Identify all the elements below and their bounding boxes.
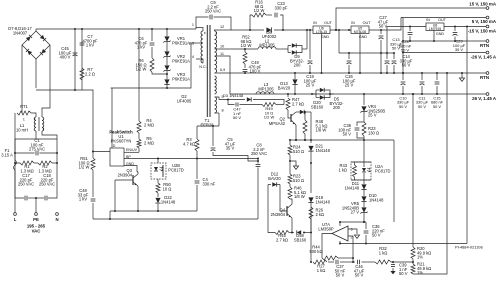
- svg-text:330 pF: 330 pF: [275, 5, 288, 10]
- capacitor C10 330 uF 50 V: [402, 73, 404, 80]
- svg-text:2 MΩ: 2 MΩ: [144, 140, 154, 145]
- svg-text:BAV20: BAV20: [268, 176, 281, 181]
- wire drain to U1: [111, 88, 113, 148]
- capacitor C17 220 pF 250 VAC: [15, 163, 24, 198]
- resistor R4 2 Mohm: [138, 29, 140, 121]
- resistor R50 10 ohm: [157, 179, 159, 183]
- wire divider bottom to RTN: [413, 73, 447, 274]
- capacitor C4 330 nF: [196, 159, 198, 180]
- svg-text:P6KE91A: P6KE91A: [172, 76, 190, 81]
- ground symbol RTN: [461, 73, 463, 78]
- svg-text:250 VAC: 250 VAC: [251, 151, 267, 156]
- resistor R27 1 kohm: [313, 260, 327, 264]
- capacitor C7 4700 pF 1 kV: [81, 29, 83, 90]
- resistor R21 49.9 kohm 1%: [411, 264, 415, 274]
- svg-text:1/8 W: 1/8 W: [316, 128, 327, 133]
- svg-text:25 V: 25 V: [306, 83, 315, 88]
- wire Q3 base: [115, 179, 133, 181]
- svg-text:1 kV: 1 kV: [137, 45, 145, 50]
- inductor L3 MP1305: [256, 92, 274, 94]
- transformer middle secondary winding: [215, 76, 217, 94]
- common-mode choke L1 10 mH: [34, 117, 36, 131]
- wire pin1 to B+ rail: [195, 28, 197, 30]
- wire 26V sense divider: [412, 94, 414, 247]
- svg-text:IN: IN: [426, 18, 430, 22]
- svg-text:3.15 A: 3.15 A: [1, 152, 13, 157]
- svg-text:50 V: 50 V: [433, 104, 441, 109]
- resistors R1 R2 1.3 Mohm: [15, 153, 20, 163]
- capacitor C47 1 nF 50 V: [228, 100, 235, 105]
- wire U6 GND leg: [321, 34, 323, 74]
- svg-text:IN: IN: [351, 21, 355, 25]
- svg-text:35 V: 35 V: [226, 146, 235, 151]
- capacitor C14 330 uF 50 V: [393, 53, 395, 59]
- svg-text:10 mH: 10 mH: [16, 127, 28, 132]
- svg-text:1 kV: 1 kV: [79, 197, 87, 202]
- transistor Q4 2N3904: [286, 206, 288, 216]
- svg-text:50 V: 50 V: [379, 24, 388, 29]
- capacitor C11 330 uF 50 V: [421, 73, 423, 80]
- resistor R47 2.7 kohm: [287, 94, 289, 97]
- diode D22 1N4148: [157, 193, 159, 197]
- resistor R51 100 ohm 1/2 W: [92, 152, 94, 159]
- svg-text:250 VAC: 250 VAC: [18, 182, 34, 187]
- regulator U6 L78L15: [313, 26, 330, 34]
- wire B+ rail: [36, 28, 196, 30]
- wire bridge right leg: [42, 45, 50, 117]
- svg-text:200: 200: [333, 105, 341, 110]
- op-amp U7A LM358P: [332, 226, 348, 241]
- capacitor C27 47 uF 50 V: [380, 30, 382, 34]
- wire D9 to regulators: [306, 30, 308, 49]
- svg-text:10: 10: [220, 45, 224, 49]
- svg-text:N.C.: N.C.: [199, 65, 207, 69]
- svg-text:UF4005: UF4005: [177, 98, 192, 103]
- capacitor C13 330 uF 50 V: [386, 53, 388, 59]
- svg-text:2,3: 2,3: [189, 42, 194, 46]
- wire op-amp V+ to drive row: [339, 222, 341, 226]
- svg-text:RTN: RTN: [480, 75, 489, 80]
- svg-text:RT1: RT1: [20, 104, 28, 109]
- resistor R7 2.2 ohm: [80, 68, 84, 80]
- svg-text:2 kΩ: 2 kΩ: [316, 212, 325, 217]
- svg-text:50 V: 50 V: [355, 273, 364, 278]
- svg-text:50 V: 50 V: [372, 233, 381, 238]
- resistor R46 5.1 kohm 1/8 W: [288, 187, 292, 199]
- capacitor C5 47 uF 35 V: [197, 125, 219, 127]
- svg-text:11: 11: [220, 52, 224, 56]
- svg-text:12: 12: [220, 25, 224, 29]
- svg-text:50 V: 50 V: [402, 63, 411, 68]
- regulator U8 LM7915: [426, 23, 444, 31]
- wire 26V rail: [230, 93, 487, 95]
- svg-text:330 nF: 330 nF: [203, 181, 216, 186]
- regulator U5 MC78L08: [351, 26, 369, 34]
- transformer lower secondary winding: [215, 97, 217, 113]
- diode D19 1N4148: [308, 197, 313, 202]
- wire RT1 to L1: [31, 113, 36, 117]
- resistor R48 5.1 kohm 1/8 W: [304, 112, 306, 120]
- svg-text:4.7 kΩ: 4.7 kΩ: [183, 141, 195, 146]
- fuse F1 3.15 A: [14, 155, 16, 160]
- wire GND pin to Q3: [124, 166, 137, 173]
- svg-text:50 V: 50 V: [233, 115, 242, 120]
- svg-text:BAV20: BAV20: [278, 85, 291, 90]
- svg-text:25 V: 25 V: [368, 113, 377, 118]
- svg-text:26 V, 1.45 A: 26 V, 1.45 A: [472, 96, 497, 101]
- svg-text:L: L: [14, 217, 17, 222]
- svg-text:2.7 kΩ: 2.7 kΩ: [276, 237, 288, 242]
- wire U5 GND leg: [359, 34, 361, 74]
- svg-text:2.7 kΩ: 2.7 kΩ: [292, 101, 304, 106]
- wire 5V to filter caps: [402, 18, 404, 74]
- svg-text:EER28: EER28: [201, 122, 215, 127]
- resistor R52 68 kohm 1/2 W and C49 470 pF 100 V: [244, 49, 246, 52]
- wire RTN rail upper: [403, 40, 487, 42]
- capacitor C18 220 pF 250 VAC: [36, 197, 44, 199]
- capacitor C34 100 nF 50 V: [357, 122, 364, 126]
- capacitor C46 47 uF 50 V: [340, 261, 355, 263]
- wire L1 bottoms to filter rail: [35, 131, 37, 139]
- Y-capacitor C8 2.2 nF 250 VAC: [257, 159, 259, 164]
- svg-text:1N4148: 1N4148: [161, 199, 176, 204]
- svg-text:6,9: 6,9: [220, 68, 225, 72]
- optocoupler U2A PC817D with R43 1 kohm: [351, 162, 371, 180]
- wire drain rail to transformer: [111, 43, 196, 88]
- wire L input to fuse: [14, 113, 16, 155]
- svg-text:1/2 W: 1/2 W: [136, 67, 147, 72]
- svg-text:VAC: VAC: [32, 228, 41, 233]
- AC input terminals L PE N 195-265 VAC: [35, 198, 37, 213]
- svg-text:2 MΩ: 2 MΩ: [144, 122, 154, 127]
- svg-text:GND: GND: [321, 35, 330, 39]
- svg-text:3: 3: [351, 228, 353, 232]
- svg-text:510 Ω: 510 Ω: [293, 149, 304, 154]
- svg-text:8: 8: [222, 109, 224, 113]
- wire BP rail: [124, 158, 258, 160]
- svg-text:D: D: [113, 144, 116, 148]
- svg-text:400 V: 400 V: [60, 55, 71, 60]
- wire -15V sense rail: [340, 243, 467, 245]
- svg-text:1%: 1%: [417, 255, 423, 260]
- wire U1 source to B- and R51: [93, 151, 110, 153]
- zener VR3 P6KE91A: [166, 57, 168, 65]
- svg-text:MP1305: MP1305: [259, 43, 275, 48]
- svg-text:PC817D: PC817D: [168, 167, 184, 172]
- wire -26V rail: [403, 52, 487, 54]
- diode D20 SB160: [296, 111, 300, 113]
- diode D12 BAV20: [268, 184, 271, 186]
- svg-text:15 V, 150 mA: 15 V, 150 mA: [469, 2, 497, 7]
- resistor R20 49.9 kohm 1%: [411, 247, 415, 259]
- transformer secondary winding: [215, 31, 217, 73]
- svg-text:5 V, 150 mA: 5 V, 150 mA: [472, 19, 497, 24]
- svg-text:1N4148: 1N4148: [316, 199, 331, 204]
- svg-text:200: 200: [294, 63, 302, 68]
- resistor R49 10 ohm 1/2 W: [240, 104, 263, 106]
- svg-text:1/2 W: 1/2 W: [241, 43, 252, 48]
- resistor R23b 510 ohm: [289, 161, 291, 174]
- zener VR5 1N5240B 27V: [363, 202, 365, 207]
- transistor Q2 MPSA42: [288, 110, 291, 118]
- svg-text:50 V: 50 V: [343, 132, 352, 137]
- svg-text:1/2 W: 1/2 W: [254, 8, 265, 13]
- svg-text:LM7915: LM7915: [429, 27, 441, 31]
- svg-text:25 V: 25 V: [345, 83, 354, 88]
- svg-text:2.2 Ω: 2.2 Ω: [85, 71, 95, 76]
- diode D21 1N4148: [308, 146, 313, 151]
- svg-text:SB160: SB160: [294, 237, 307, 242]
- svg-text:N: N: [55, 217, 58, 222]
- wire bridge bottom to B- rail: [35, 59, 37, 88]
- input filter top rail: [15, 138, 57, 140]
- svg-text:35 V: 35 V: [455, 47, 464, 52]
- capacitor C6 470 pF 1 kV: [151, 29, 153, 41]
- wire 5V output rail: [401, 17, 487, 19]
- svg-text:PKS607YN: PKS607YN: [111, 138, 132, 143]
- resistor R24 510 ohm: [289, 140, 291, 145]
- svg-text:1: 1: [192, 23, 194, 27]
- zener VR2 P6KE91A: [166, 42, 168, 51]
- svg-text:RTN: RTN: [480, 43, 489, 48]
- svg-text:50 V: 50 V: [399, 271, 408, 276]
- wire U2B top to BP rail: [157, 159, 159, 164]
- svg-text:500 kΩ: 500 kΩ: [309, 249, 322, 254]
- svg-text:1/2 W: 1/2 W: [79, 165, 90, 170]
- thermistor RT1: [17, 111, 31, 115]
- diode D58 SB160: [289, 232, 294, 234]
- svg-text:2N3904: 2N3904: [118, 172, 133, 177]
- svg-text:2N3904: 2N3904: [271, 212, 286, 217]
- capacitor C39 1 nF 50 V with ground: [392, 261, 394, 263]
- svg-text:P6KE91A: P6KE91A: [172, 58, 190, 63]
- svg-text:P6KE91A: P6KE91A: [172, 40, 190, 45]
- capacitor C26 100 uF 25 V: [348, 53, 350, 59]
- wire bias return: [218, 113, 220, 126]
- svg-text:1N4148: 1N4148: [316, 148, 331, 153]
- svg-text:1 kV: 1 kV: [86, 43, 94, 48]
- inductor L2 MP1305: [219, 48, 258, 50]
- diode D11 1N4148: [363, 180, 365, 184]
- optocoupler U2B PC817D: [151, 163, 166, 179]
- svg-text:D3 1N4148: D3 1N4148: [223, 93, 244, 98]
- PeakSwitch U1 PKS607YN: [110, 148, 124, 166]
- wire op-amp drive row: [340, 221, 366, 223]
- wire sense rail: [290, 139, 394, 141]
- resistor R23 130 ohm: [362, 122, 366, 136]
- capacitor C29 100 uF 35 V: [454, 27, 456, 32]
- ground tap: [290, 155, 296, 166]
- svg-text:10 Ω: 10 Ω: [163, 186, 172, 191]
- wire primary ground rail: [93, 218, 258, 220]
- svg-text:1/2 W: 1/2 W: [264, 115, 275, 120]
- wire B- rail: [36, 90, 93, 152]
- svg-text:50 V: 50 V: [392, 46, 400, 51]
- svg-text:275 VAC: 275 VAC: [29, 147, 45, 152]
- svg-text:PC817D: PC817D: [375, 168, 391, 173]
- wire op-amp V- to lower rail: [339, 241, 341, 244]
- resistor R5 2 Mohm: [138, 133, 140, 139]
- svg-text:EN/UV: EN/UV: [126, 148, 138, 152]
- zener VR4 1N5250B 25V: [363, 94, 365, 105]
- svg-text:27 V: 27 V: [351, 210, 360, 215]
- capacitor C35 220 nF 50 V: [365, 222, 367, 229]
- capacitor C48 33 pF 1 kV: [92, 170, 94, 197]
- svg-text:1 kΩ: 1 kΩ: [338, 167, 347, 172]
- wire EN/UV pin to R5: [124, 151, 139, 153]
- wire -15V input rail: [386, 27, 388, 54]
- svg-text:MPSA42: MPSA42: [269, 121, 286, 126]
- resistor R3 4.7 kohm: [196, 126, 198, 139]
- svg-text:1N4148: 1N4148: [369, 197, 384, 202]
- diode D13 BAV20: [294, 73, 296, 79]
- Y-capacitor C9 2.2 nF 250 VAC: [196, 17, 209, 28]
- wire sub-circuit bottom rail: [110, 210, 197, 212]
- wire op-amp feedback R44 500 kohm: [322, 234, 332, 259]
- diode D3 1N4148: [219, 99, 245, 101]
- svg-text:1 kΩ: 1 kΩ: [317, 268, 326, 273]
- svg-text:4: 4: [192, 55, 194, 59]
- svg-text:PI-4884-021108: PI-4884-021108: [455, 245, 483, 250]
- wire Q2 emitter down: [295, 125, 297, 140]
- diode D6 UF4002: [266, 27, 271, 32]
- wire RTN secondary rail: [219, 72, 487, 74]
- capacitor C1 100 nF 275 VAC: [15, 139, 35, 153]
- capacitor C15 680 nF 50 V: [436, 73, 438, 80]
- svg-text:50 V: 50 V: [401, 48, 410, 53]
- wire bridge left leg: [21, 45, 23, 113]
- capacitor C28 680 nF 50 V: [409, 27, 411, 32]
- dual diode D5 BYV32-200: [312, 93, 316, 95]
- wire right side drop: [393, 140, 395, 222]
- svg-text:130 Ω: 130 Ω: [368, 130, 379, 135]
- svg-text:510 Ω: 510 Ω: [293, 178, 304, 183]
- svg-text:1/8 W: 1/8 W: [294, 194, 305, 199]
- svg-text:1N4007: 1N4007: [13, 30, 28, 35]
- snubber capacitor C23 330 pF: [266, 14, 272, 16]
- svg-text:250 VAC: 250 VAC: [39, 182, 55, 187]
- wire op-amp pin3 to ground: [348, 229, 357, 234]
- svg-text:1N4148: 1N4148: [345, 185, 360, 190]
- svg-text:PE: PE: [33, 217, 39, 222]
- svg-text:250 VAC: 250 VAC: [205, 9, 221, 14]
- svg-text:50 V: 50 V: [336, 273, 345, 278]
- svg-text:OUT: OUT: [324, 21, 333, 25]
- bridge rectifier D7-8,D16-17 1N4007: [22, 31, 50, 59]
- wire D21 chain: [310, 112, 312, 143]
- svg-text:MP1305: MP1305: [258, 86, 274, 91]
- snubber R16 68 ohm 1/2 W: [250, 15, 252, 30]
- transistor Q3 2N3904: [132, 175, 134, 185]
- diode D2 UF4005: [166, 71, 168, 79]
- resistor R26 2 kohm: [309, 207, 313, 219]
- wire 15V pre-regulator rail: [219, 29, 264, 31]
- svg-text:50 V: 50 V: [399, 104, 407, 109]
- wire 15V output rail: [336, 8, 487, 30]
- transformer core: [207, 25, 210, 117]
- svg-text:OUT: OUT: [363, 21, 372, 25]
- svg-text:GND: GND: [436, 32, 445, 36]
- resistor R32 1 kohm: [362, 261, 376, 263]
- capacitor C37 50 nF 50 V: [328, 261, 334, 263]
- svg-text:SB160: SB160: [311, 104, 324, 109]
- dual diode D9 BYV32-200: [276, 48, 288, 50]
- wire Q4 base from D12: [280, 185, 287, 212]
- svg-text:1 kΩ: 1 kΩ: [379, 250, 388, 255]
- transformer T1 EER28 primary winding: [201, 31, 203, 63]
- capacitor C45 100 uF 400 V: [74, 29, 76, 90]
- capacitor C19 100 uF 25 V: [309, 30, 311, 59]
- wire U8 GND leg: [433, 31, 435, 42]
- svg-text:-26 V, 1.45 A: -26 V, 1.45 A: [471, 55, 497, 60]
- wire mid secondary rail: [338, 30, 340, 54]
- svg-text:-15 V, 150 mA: -15 V, 150 mA: [468, 29, 497, 34]
- wire bridge top to +rail: [35, 29, 37, 31]
- diode D10 1N4148: [363, 190, 365, 196]
- resistor R45 2.7 kohm: [268, 185, 275, 233]
- zener VR1 P6KE91A: [166, 29, 168, 36]
- resistor R6 150 ohm 1/2 W: [151, 47, 153, 58]
- svg-text:OUT: OUT: [438, 18, 447, 22]
- svg-text:50 V: 50 V: [418, 104, 426, 109]
- wire pin11 to L3: [219, 56, 230, 94]
- svg-text:IN: IN: [313, 21, 317, 25]
- wire U2A top: [363, 140, 365, 162]
- svg-text:LM358P: LM358P: [318, 226, 334, 231]
